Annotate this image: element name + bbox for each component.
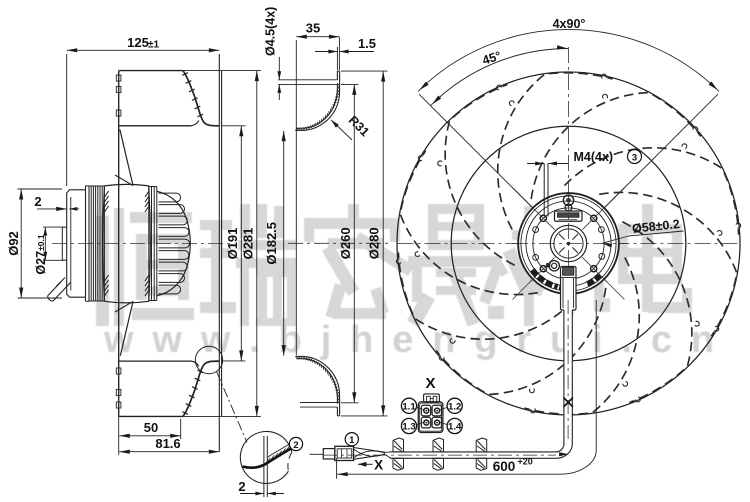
svg-text:X: X [374, 458, 383, 473]
svg-text:Ø4.5(4x): Ø4.5(4x) [264, 7, 278, 56]
svg-text:1.5: 1.5 [358, 36, 376, 51]
svg-text:125: 125 [127, 35, 149, 50]
svg-text:Ø280: Ø280 [367, 227, 382, 259]
svg-text:81.6: 81.6 [155, 436, 180, 451]
svg-text:3: 3 [632, 153, 637, 164]
svg-text:w w w . b j h e n g r u i . c: w w w . b j h e n g r u i . c n [103, 319, 718, 361]
svg-text:600: 600 [493, 459, 516, 474]
svg-text:Ø92: Ø92 [6, 231, 21, 256]
svg-text:1.4: 1.4 [448, 422, 462, 433]
svg-text:Ø281: Ø281 [241, 228, 256, 260]
svg-text:±1: ±1 [148, 40, 159, 51]
svg-text:Ø260: Ø260 [338, 227, 353, 259]
svg-text:1.2: 1.2 [448, 401, 461, 412]
svg-text:35: 35 [306, 21, 320, 36]
svg-text:4x90°: 4x90° [553, 17, 586, 31]
svg-text:X: X [425, 375, 435, 392]
svg-text:M4(4x): M4(4x) [574, 150, 614, 164]
svg-text:1: 1 [349, 435, 355, 446]
svg-text:2: 2 [34, 194, 41, 209]
svg-text:50: 50 [144, 420, 158, 435]
svg-text:1.1: 1.1 [402, 401, 416, 412]
svg-text:2: 2 [238, 479, 245, 494]
svg-text:R31: R31 [346, 113, 372, 139]
svg-text:45°: 45° [481, 49, 503, 68]
svg-text:2: 2 [293, 440, 298, 451]
svg-text:1.3: 1.3 [402, 422, 415, 433]
svg-text:Ø27±0.1: Ø27±0.1 [34, 234, 48, 274]
svg-text:Ø182.5: Ø182.5 [264, 222, 279, 265]
svg-text:Ø191: Ø191 [225, 228, 240, 260]
svg-text:+20: +20 [518, 457, 533, 467]
